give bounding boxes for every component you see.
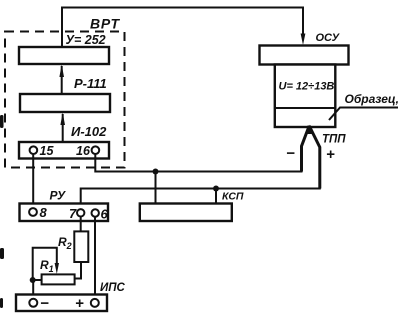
wire 7 to TPP plus <box>81 146 320 209</box>
scan artifact marks <box>0 115 4 308</box>
svg-text:ОСУ: ОСУ <box>316 32 341 44</box>
svg-text:15: 15 <box>40 144 55 158</box>
resistor R1 (rheostat) <box>42 274 75 284</box>
thermocouple TPP <box>302 125 320 189</box>
svg-text:+: + <box>75 295 84 312</box>
wire У-252 to OSU (top feed line) <box>62 8 303 48</box>
block И-102 <box>19 142 109 159</box>
svg-text:−: − <box>40 295 49 312</box>
wire 15 to 8 <box>32 154 34 208</box>
block RU <box>20 204 109 222</box>
svg-text:Р-111: Р-111 <box>74 76 107 91</box>
terminal 15 <box>30 144 55 158</box>
block amplifier У-252 <box>19 47 109 64</box>
svg-text:7: 7 <box>69 206 77 221</box>
sample divider line <box>275 107 336 109</box>
block OSU <box>260 46 349 65</box>
terminal 16 <box>76 144 99 158</box>
block Р-111 <box>20 94 110 112</box>
wire junction to KSP second terminal <box>215 189 217 204</box>
label Obrazets with leader <box>329 92 399 120</box>
wiper arm of R1 <box>33 248 59 280</box>
svg-text:−: − <box>286 145 295 162</box>
wire 7 to R2 <box>80 216 82 231</box>
terminal 8 <box>29 205 47 220</box>
svg-text:+: + <box>326 146 335 163</box>
junction node on plus net <box>213 186 219 192</box>
svg-text:U= 12÷13В: U= 12÷13В <box>279 81 335 93</box>
junction node on minus net <box>153 169 159 175</box>
wire/arrow Р-111 to У-252 <box>61 66 63 94</box>
block IPS <box>16 295 107 312</box>
resistor R2 <box>74 231 88 262</box>
wire/arrow И-102 to Р-111 <box>62 114 64 142</box>
svg-text:6: 6 <box>101 207 109 222</box>
svg-text:И-102: И-102 <box>71 124 107 139</box>
svg-text:ВРТ: ВРТ <box>90 16 121 32</box>
arrowhead into OSU <box>301 34 306 46</box>
wire junction to R1 left terminal <box>33 279 42 281</box>
svg-text:ИПС: ИПС <box>100 282 126 294</box>
wire junction to minus terminal of IPS <box>32 280 34 299</box>
svg-text:У= 252: У= 252 <box>66 33 106 47</box>
block KSP <box>140 204 232 222</box>
junction node at R1 left <box>30 277 36 283</box>
svg-text:ТПП: ТПП <box>322 134 346 146</box>
svg-text:8: 8 <box>40 205 48 220</box>
block furnace U=12÷13V <box>275 65 336 128</box>
wire 16 to TPP minus <box>95 145 301 172</box>
svg-text:РУ: РУ <box>50 189 67 203</box>
svg-text:КСП: КСП <box>222 191 244 203</box>
wire junction to KSP <box>155 172 157 204</box>
wire R2 bottom to R1 <box>75 262 81 279</box>
svg-text:Образец,: Образец, <box>345 92 400 106</box>
terminal 7 <box>69 206 84 221</box>
terminal minus (IPS) <box>29 295 49 312</box>
svg-text:16: 16 <box>76 144 91 158</box>
dashed enclosure VRT <box>5 32 125 168</box>
terminal plus (IPS) <box>75 295 99 312</box>
terminal 6 <box>92 207 109 222</box>
wire plus terminal of IPS to 6 <box>94 217 96 299</box>
